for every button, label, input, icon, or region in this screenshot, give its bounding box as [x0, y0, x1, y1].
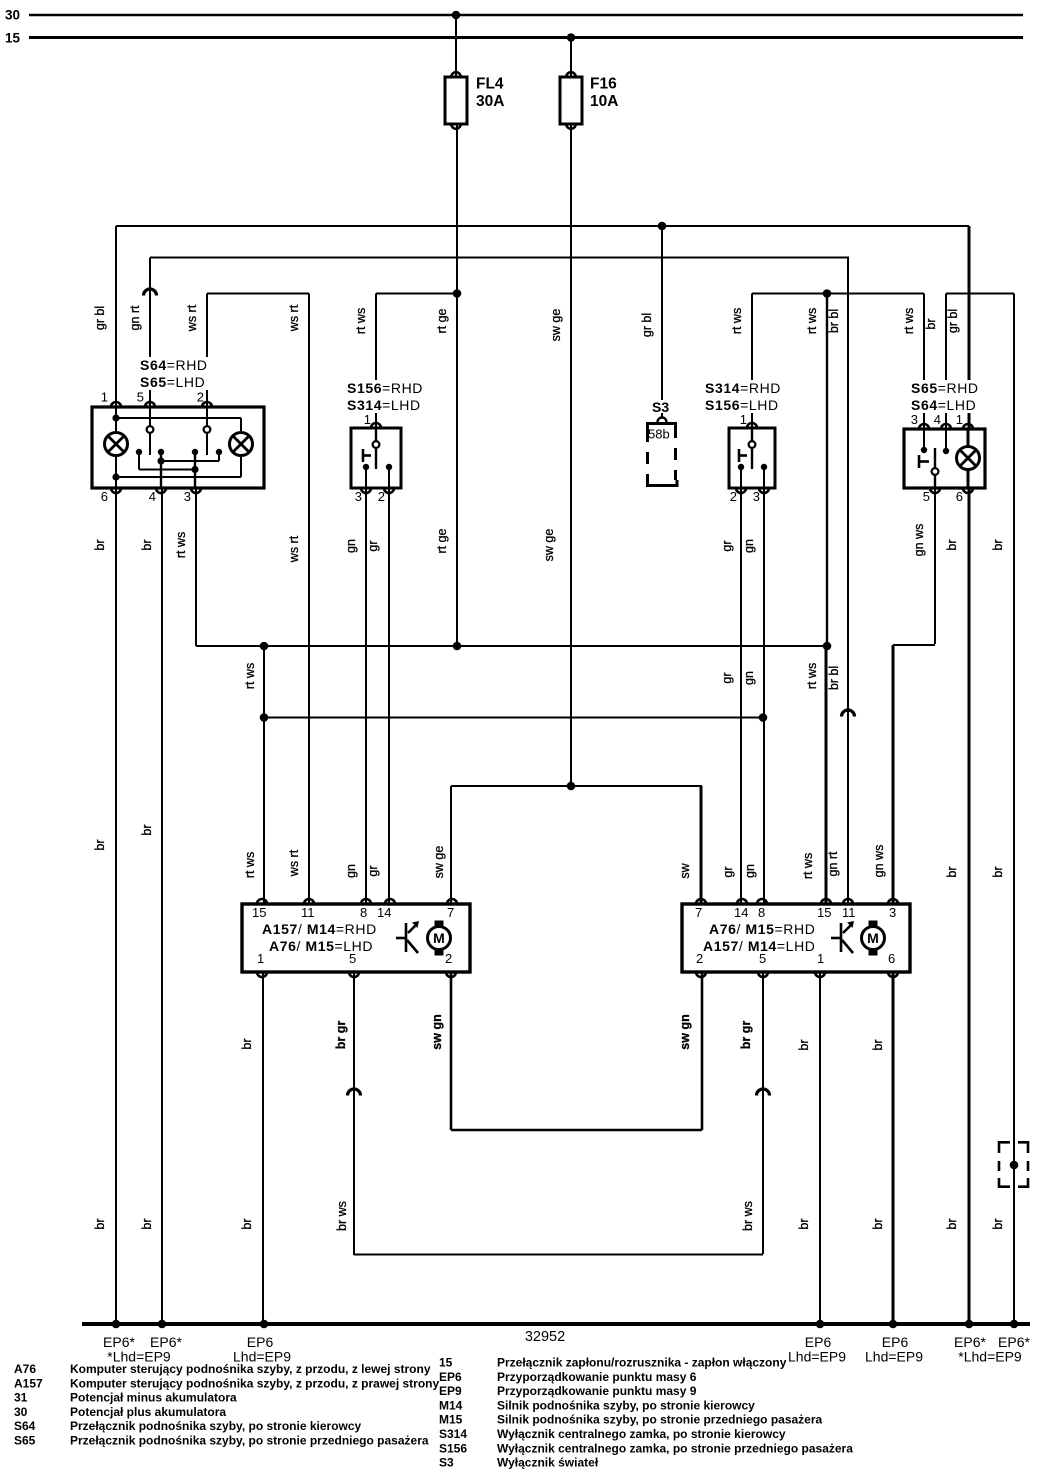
- svg-text:3: 3: [184, 489, 191, 504]
- window lifter switch S64 driver side box: [92, 407, 264, 488]
- S64 pin 6 terminal: [111, 488, 121, 493]
- svg-text:5: 5: [923, 489, 930, 504]
- svg-text:5: 5: [137, 390, 144, 405]
- svg-text:A76/ M15=LHD: A76/ M15=LHD: [269, 938, 373, 954]
- svg-text:2: 2: [696, 951, 703, 966]
- svg-text:br: br: [140, 1218, 154, 1229]
- S65 pin 3 terminal: [919, 424, 929, 429]
- A76 pin 2 terminal: [696, 972, 706, 977]
- wire sw gn loop between A157 pin 2 and A76 pin 2: [450, 972, 453, 1130]
- wire br from S65 pin 6 to ground rail: [968, 488, 971, 1324]
- connector on right br ground wire: [999, 1142, 1028, 1186]
- svg-text:sw ge: sw ge: [549, 309, 563, 342]
- A76 pin 3 terminal: [888, 899, 898, 904]
- junction gr bl branch to S3: [658, 222, 667, 231]
- svg-text:gr: gr: [721, 866, 735, 877]
- junction rt ws vertical branch: [823, 289, 832, 298]
- wire rt ws horizontal from S314 pin1 to S65 pin3: [752, 293, 924, 295]
- svg-text:11: 11: [301, 905, 315, 920]
- svg-text:rt ge: rt ge: [435, 528, 449, 553]
- svg-text:30: 30: [5, 8, 20, 23]
- wire rt ws down to S314 pin 1: [751, 294, 753, 429]
- svg-text:8: 8: [360, 905, 367, 920]
- svg-text:gn rt: gn rt: [128, 305, 142, 331]
- junction rt ge end: [453, 642, 462, 651]
- svg-text:30: 30: [14, 1405, 28, 1419]
- S64 rocker pole from pin 2: [206, 407, 208, 426]
- svg-text:br: br: [797, 1218, 811, 1229]
- svg-text:br bl: br bl: [827, 309, 841, 333]
- junction right end link on gn wire: [759, 713, 768, 722]
- wire gr bl down to S65 pin 1: [968, 226, 971, 429]
- svg-text:Potencjał plus akumulatora: Potencjał plus akumulatora: [70, 1405, 226, 1419]
- S314 pin 3 terminal: [759, 488, 769, 493]
- switch S65/S64 designation: [908, 380, 988, 413]
- S64 contact link to pin 3: [138, 452, 140, 470]
- svg-text:2: 2: [445, 951, 452, 966]
- svg-text:M15: M15: [439, 1413, 463, 1427]
- svg-text:sw: sw: [678, 862, 692, 878]
- svg-text:EP6: EP6: [439, 1370, 462, 1384]
- bus bar 30 (battery plus): [29, 14, 1023, 17]
- wire gr bl horizontal net from S64 pin1 to S65 pin1: [116, 225, 969, 227]
- svg-text:7: 7: [695, 905, 702, 920]
- wire ws rt vertical down to A157 pin 11: [308, 294, 310, 905]
- wire sw down to A76 pin 7: [700, 786, 703, 904]
- svg-text:A157/ M14=RHD: A157/ M14=RHD: [262, 921, 377, 937]
- S65 contact stud pin 3: [923, 429, 925, 447]
- wire br from S64 pin 4 to ground rail: [161, 488, 163, 1324]
- junction on bus 15 feeding fuse F16: [567, 33, 576, 42]
- S64 pin 3 terminal: [191, 488, 201, 493]
- S314 pin 2 wire: [740, 467, 742, 488]
- svg-text:rt ge: rt ge: [435, 308, 449, 333]
- wire br gr / br ws from A157 pin 5: [353, 972, 355, 1255]
- svg-text:sw gn: sw gn: [678, 1014, 692, 1049]
- svg-text:gn: gn: [742, 539, 756, 553]
- splice hook on gn rt wire: [144, 289, 157, 296]
- svg-text:10A: 10A: [590, 93, 618, 110]
- A157 pin 7 terminal: [447, 899, 457, 904]
- S65 pin 5 terminal: [930, 488, 940, 493]
- S65 pin 4 terminal: [941, 424, 951, 429]
- svg-text:S314=LHD: S314=LHD: [347, 397, 421, 413]
- wire gn ws from S65 pin 5 to A76 pin 3: [934, 488, 936, 644]
- svg-text:br: br: [945, 866, 959, 877]
- wire rt ws from S64 pin 3: [195, 488, 197, 646]
- wire gr bl down to S64 pin 1: [115, 226, 117, 407]
- svg-text:S314=RHD: S314=RHD: [705, 380, 781, 396]
- svg-text:br: br: [945, 1218, 959, 1229]
- svg-text:Przełącznik podnośnika szyby,: Przełącznik podnośnika szyby, po stronie…: [70, 1434, 429, 1448]
- wire br bl / gn rt down to A76 pin 11: [847, 258, 849, 905]
- svg-text:Wyłącznik centralnego zamka, p: Wyłącznik centralnego zamka, po stronie …: [497, 1427, 786, 1441]
- svg-text:S65: S65: [14, 1434, 36, 1448]
- svg-text:3: 3: [753, 489, 760, 504]
- svg-text:br: br: [140, 824, 154, 835]
- svg-text:32952: 32952: [525, 1329, 565, 1345]
- S65 pin 1 terminal: [963, 424, 973, 429]
- svg-text:Silnik podnośnika szyby, po st: Silnik podnośnika szyby, po stronie prze…: [497, 1413, 823, 1427]
- svg-text:Potencjał minus akumulatora: Potencjał minus akumulatora: [70, 1391, 237, 1405]
- A157 pin 2 terminal: [446, 972, 456, 977]
- S314 fixed contact T: [738, 449, 741, 462]
- svg-text:sw gn: sw gn: [430, 1014, 444, 1049]
- wire br from A76 pin 1 to ground rail: [819, 972, 821, 1324]
- A157 pin 1 terminal: [257, 972, 267, 977]
- window lifter control unit A157/M14 box: [242, 904, 470, 972]
- svg-text:br: br: [240, 1038, 254, 1049]
- wire rt ws down to S65 pin 3: [923, 294, 925, 430]
- svg-text:br: br: [140, 539, 154, 550]
- horizontal connection rt ws: [196, 645, 827, 647]
- S314 pin 2 terminal: [736, 488, 746, 493]
- light switch S3 terminal 58b: [658, 418, 667, 423]
- svg-text:ws rt: ws rt: [287, 304, 301, 332]
- ground rail junctions: [112, 1320, 121, 1329]
- S65 illumination lamp: [967, 429, 970, 447]
- S64 pin 4 terminal: [156, 488, 166, 493]
- svg-text:15: 15: [252, 905, 266, 920]
- svg-text:gr: gr: [366, 865, 380, 876]
- junction left end link: [260, 713, 269, 722]
- A157 pin 15 terminal: [257, 899, 267, 904]
- svg-text:31: 31: [14, 1391, 28, 1405]
- ground rail: [82, 1322, 1030, 1326]
- svg-text:br: br: [240, 1218, 254, 1229]
- wire rt ws down to A157 pin 15: [263, 646, 265, 904]
- svg-text:Komputer sterujący podnośnika: Komputer sterujący podnośnika szyby, z p…: [70, 1362, 431, 1376]
- wire br down to S65 pin 4: [945, 294, 947, 430]
- br ws link between control units: [354, 1254, 763, 1256]
- svg-text:br: br: [991, 1218, 1005, 1229]
- splice hook on br gr wire left: [348, 1089, 361, 1096]
- S64 right illumination lamp: [230, 433, 253, 456]
- S65 fixed contact T: [918, 455, 921, 468]
- svg-text:br: br: [991, 539, 1005, 550]
- svg-text:gn: gn: [743, 864, 757, 878]
- svg-text:A76: A76: [14, 1362, 36, 1376]
- S156 pin 2 wire: [388, 467, 390, 488]
- svg-text:M: M: [433, 930, 445, 946]
- A157 position sensor icon: [396, 921, 419, 953]
- svg-text:rt ws: rt ws: [354, 308, 368, 334]
- svg-text:gn ws: gn ws: [872, 845, 886, 878]
- junction on bus 30 feeding fuse FL4: [452, 11, 461, 20]
- svg-text:gr: gr: [720, 540, 734, 551]
- svg-text:S65=LHD: S65=LHD: [140, 374, 205, 390]
- svg-text:1: 1: [740, 412, 747, 427]
- junction rt ws right end: [823, 642, 832, 651]
- wire br from A76 pin 6 to ground rail: [892, 972, 895, 1324]
- A76 pin 5 terminal: [758, 972, 768, 977]
- svg-text:F16: F16: [590, 76, 617, 93]
- svg-text:rt ws: rt ws: [801, 853, 815, 879]
- wire gr from S156 pin 2 to A157 pin 14: [388, 488, 390, 904]
- svg-text:S156=LHD: S156=LHD: [705, 397, 779, 413]
- svg-text:EP9: EP9: [439, 1384, 462, 1398]
- A157 pin 11 terminal: [304, 899, 314, 904]
- svg-text:5: 5: [349, 951, 356, 966]
- switch S156/S314 designation: [344, 380, 432, 413]
- wire gn from S156 pin 3 to A157 pin 8: [365, 488, 367, 904]
- svg-text:S65=RHD: S65=RHD: [911, 380, 979, 396]
- switch S314/S156 designation: [702, 380, 790, 413]
- S156 pin 3 wire: [365, 467, 367, 488]
- svg-text:11: 11: [842, 905, 856, 920]
- svg-text:br ws: br ws: [335, 1201, 349, 1231]
- svg-text:Silnik podnośnika szyby, po st: Silnik podnośnika szyby, po stronie kier…: [497, 1398, 755, 1412]
- svg-text:Przyporządkowanie punktu masy: Przyporządkowanie punktu masy 9: [497, 1384, 697, 1398]
- S156 contact studs: [363, 464, 369, 470]
- splice hook on br gr wire right: [757, 1089, 770, 1096]
- horizontal link wire to gn: [264, 717, 763, 719]
- wire gr bl down to light switch S3: [661, 226, 663, 417]
- svg-text:15: 15: [5, 31, 21, 46]
- A76 pin 15 terminal: [821, 899, 831, 904]
- bus bar 15 (ignition): [29, 36, 1023, 39]
- junction rt ws branch down: [260, 642, 269, 651]
- svg-text:rt ws: rt ws: [805, 663, 819, 689]
- A76 pin 14 terminal: [737, 899, 747, 904]
- svg-text:2: 2: [197, 390, 204, 405]
- S64 contact link to pin 4: [160, 452, 162, 488]
- svg-text:Przełącznik podnośnika szyby,: Przełącznik podnośnika szyby, po stronie…: [70, 1419, 362, 1433]
- A76 pin 1 terminal: [815, 972, 825, 977]
- svg-text:15: 15: [817, 905, 831, 920]
- S64 pin 5 terminal: [145, 402, 155, 407]
- fuse FL4 30A: [455, 15, 457, 77]
- wire rt ge from fuse FL4 down: [456, 124, 458, 646]
- A157 pin 14 terminal: [385, 899, 395, 904]
- svg-text:Wyłącznik świateł: Wyłącznik świateł: [497, 1456, 599, 1470]
- svg-text:14: 14: [734, 905, 748, 920]
- svg-text:sw ge: sw ge: [542, 529, 556, 562]
- window lifter switch S65 passenger side box: [904, 429, 985, 488]
- svg-text:br ws: br ws: [741, 1201, 755, 1231]
- svg-text:*Lhd=EP9: *Lhd=EP9: [958, 1349, 1022, 1365]
- svg-text:br: br: [871, 1039, 885, 1050]
- svg-text:14: 14: [377, 905, 391, 920]
- A157 pin 8 terminal: [361, 899, 371, 904]
- svg-text:br: br: [93, 539, 107, 550]
- svg-text:S64=LHD: S64=LHD: [911, 397, 976, 413]
- svg-text:gr: gr: [720, 672, 734, 683]
- svg-text:gn: gn: [344, 539, 358, 553]
- S156 switch pole: [375, 428, 377, 441]
- svg-text:4: 4: [934, 412, 941, 427]
- A157 window motor M14 icon: [428, 921, 451, 956]
- svg-text:br gr: br gr: [334, 1021, 348, 1050]
- svg-text:6: 6: [888, 951, 895, 966]
- svg-text:br: br: [93, 839, 107, 850]
- svg-text:58b: 58b: [648, 427, 670, 442]
- svg-text:gn: gn: [742, 671, 756, 685]
- svg-text:A157: A157: [14, 1376, 43, 1390]
- svg-text:rt ws: rt ws: [243, 663, 257, 689]
- svg-text:Lhd=EP9: Lhd=EP9: [788, 1349, 846, 1365]
- svg-text:7: 7: [447, 905, 454, 920]
- A76 window motor M15 icon: [862, 921, 885, 956]
- svg-text:ws rt: ws rt: [287, 535, 301, 563]
- S64 left illumination lamp: [105, 433, 128, 456]
- wire rt ws from S156 pin1 to rt ge: [376, 293, 457, 295]
- svg-text:3: 3: [889, 905, 896, 920]
- switch S64/S65 designation: [137, 357, 213, 390]
- fuse F16 10A: [570, 38, 572, 78]
- svg-text:S314: S314: [439, 1427, 467, 1441]
- svg-text:Komputer sterujący podnośnika: Komputer sterujący podnośnika szyby, z p…: [70, 1376, 440, 1390]
- svg-text:rt ws: rt ws: [174, 532, 188, 558]
- svg-text:br: br: [945, 539, 959, 550]
- svg-text:S3: S3: [439, 1456, 454, 1470]
- wire rt ws vertical to A76 pin 15: [826, 294, 828, 647]
- svg-text:br: br: [797, 1039, 811, 1050]
- svg-text:1: 1: [257, 951, 264, 966]
- S156 pin 1 terminal: [371, 423, 381, 428]
- svg-text:br: br: [93, 1218, 107, 1229]
- S65 switch pole to pin 5: [934, 448, 936, 468]
- S314 switch pole: [751, 428, 753, 441]
- wire br right margin down to ground: [1013, 294, 1015, 1325]
- svg-text:rt ws: rt ws: [805, 308, 819, 334]
- wire br horizontal from S65 pin4 to right br ground wire: [946, 293, 1014, 295]
- A76 pin 8 terminal: [757, 899, 767, 904]
- splice inside connector: [1010, 1161, 1019, 1170]
- svg-text:2: 2: [378, 489, 385, 504]
- svg-text:br: br: [924, 318, 938, 329]
- svg-text:gn: gn: [344, 864, 358, 878]
- svg-text:S64=RHD: S64=RHD: [140, 357, 208, 373]
- wire br from S64 pin 6 to ground rail: [115, 488, 117, 1324]
- svg-text:sw ge: sw ge: [432, 846, 446, 879]
- svg-text:br bl: br bl: [827, 666, 841, 690]
- wire ws rt loop over S64 pin2: [207, 293, 309, 295]
- A76 pin 7 terminal: [696, 899, 706, 904]
- svg-text:FL4: FL4: [476, 76, 504, 93]
- svg-text:gn ws: gn ws: [912, 524, 926, 557]
- S64 internal supply node pin1: [115, 407, 117, 433]
- svg-text:S64: S64: [14, 1419, 36, 1433]
- A76 position sensor icon: [831, 921, 854, 953]
- svg-text:Przełącznik zapłonu/rozrusznik: Przełącznik zapłonu/rozrusznika - zapłon…: [497, 1356, 787, 1370]
- svg-text:2: 2: [730, 489, 737, 504]
- svg-text:4: 4: [149, 489, 156, 504]
- wire gn rt / br bl horizontal net: [150, 257, 849, 259]
- svg-text:6: 6: [956, 489, 963, 504]
- svg-text:3: 3: [911, 412, 918, 427]
- svg-text:rt ws: rt ws: [902, 308, 916, 334]
- svg-text:gr bl: gr bl: [93, 306, 107, 330]
- central locking switch S156 box: [351, 428, 401, 488]
- svg-text:Przyporządkowanie punktu masy: Przyporządkowanie punktu masy 6: [497, 1370, 697, 1384]
- svg-text:ws rt: ws rt: [287, 849, 301, 877]
- S64 lamp ground bus: [115, 455, 117, 488]
- wire gn from S314 pin 3 to A76 pin 8: [763, 488, 765, 904]
- wire rt ws down to S156 pin 1: [375, 294, 377, 429]
- svg-text:gr bl: gr bl: [946, 309, 960, 333]
- S65 pin 6 terminal: [963, 488, 973, 493]
- svg-text:br: br: [991, 866, 1005, 877]
- svg-text:8: 8: [758, 905, 765, 920]
- S314 contact studs: [738, 464, 744, 470]
- splice hook on br bl wire: [842, 710, 855, 717]
- svg-text:A76/ M15=RHD: A76/ M15=RHD: [709, 921, 815, 937]
- svg-text:1: 1: [364, 412, 371, 427]
- S64 pin 2 terminal: [202, 402, 212, 407]
- wire gr from S314 pin 2 to A76 pin 14: [740, 488, 742, 904]
- S64 rocker pole from pin 5: [149, 407, 151, 426]
- A76 pin 6 terminal: [888, 972, 898, 977]
- svg-text:S156: S156: [439, 1441, 467, 1455]
- svg-text:br gr: br gr: [739, 1021, 753, 1050]
- wire gn rt down to S64 pin 5: [149, 258, 151, 408]
- svg-text:Lhd=EP9: Lhd=EP9: [865, 1349, 923, 1365]
- svg-text:M: M: [867, 930, 879, 946]
- svg-text:rt ws: rt ws: [243, 852, 257, 878]
- svg-text:gn rt: gn rt: [826, 851, 840, 877]
- svg-text:gr bl: gr bl: [640, 313, 654, 337]
- svg-text:1: 1: [817, 951, 824, 966]
- wire br from A157 pin 1 to ground rail: [262, 972, 264, 1324]
- sw ge distribution to both control units: [451, 785, 702, 787]
- wire br gr / br ws from A76 pin 5: [762, 972, 764, 1254]
- S156 pin 2 terminal: [384, 488, 394, 493]
- S314 pin 1 terminal: [747, 423, 757, 428]
- S156 pin 3 terminal: [361, 488, 371, 493]
- svg-text:gr: gr: [366, 540, 380, 551]
- S314 pin 3 wire: [763, 467, 765, 488]
- S64 pin 1 terminal: [111, 402, 121, 407]
- svg-text:5: 5: [759, 951, 766, 966]
- A76 pin 11 terminal: [843, 899, 853, 904]
- svg-text:br: br: [871, 1218, 885, 1229]
- junction rt ge to rt ws branch: [453, 289, 462, 298]
- S64 contact studs: [136, 449, 142, 455]
- S65 contact stud pin 4: [945, 429, 947, 448]
- light switch S3 box (partially shown): [646, 422, 677, 425]
- S156 fixed contact T: [362, 449, 365, 462]
- light switch S3 designation: [650, 400, 672, 413]
- svg-text:Wyłącznik centralnego zamka, p: Wyłącznik centralnego zamka, po stronie …: [497, 1441, 853, 1455]
- window lifter control unit A76/M15 box: [682, 904, 910, 972]
- svg-text:S3: S3: [652, 399, 669, 415]
- svg-text:S156=RHD: S156=RHD: [347, 380, 423, 396]
- svg-text:15: 15: [439, 1356, 453, 1370]
- svg-text:ws rt: ws rt: [185, 304, 199, 332]
- wire sw ge down to A157 pin 7: [450, 786, 452, 904]
- svg-text:1: 1: [101, 390, 108, 405]
- svg-text:3: 3: [355, 489, 362, 504]
- svg-text:rt ws: rt ws: [730, 308, 744, 334]
- central locking switch S314 box: [729, 428, 775, 488]
- junction sw ge: [567, 782, 576, 791]
- svg-text:6: 6: [101, 489, 108, 504]
- wire ws rt down from loop to S64 pin 2: [206, 294, 208, 408]
- svg-text:30A: 30A: [476, 93, 504, 110]
- svg-text:M14: M14: [439, 1398, 463, 1412]
- svg-text:1: 1: [956, 412, 963, 427]
- wire sw ge from fuse F16 down: [570, 124, 572, 786]
- A157 pin 5 terminal: [349, 972, 359, 977]
